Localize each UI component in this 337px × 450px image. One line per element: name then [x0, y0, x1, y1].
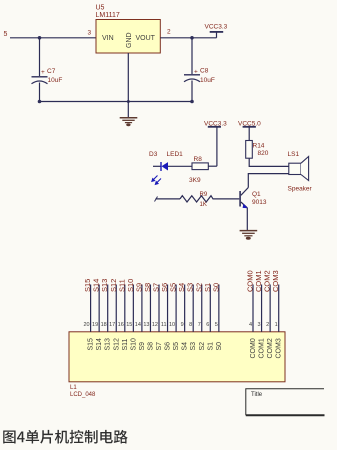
svg-text:L1: L1 — [70, 385, 77, 391]
wire: net S8 to pin 13 — [149, 285, 151, 332]
svg-text:7: 7 — [198, 322, 201, 328]
svg-text:S12: S12 — [113, 338, 120, 351]
svg-text:C7: C7 — [47, 68, 56, 75]
svg-text:Q1: Q1 — [252, 191, 261, 198]
svg-text:COM1: COM1 — [259, 338, 266, 358]
wire: R14 to speaker top — [249, 158, 289, 166]
regulator U5 LM1117 — [88, 5, 172, 54]
svg-text:S6: S6 — [165, 342, 172, 351]
wire: net COM3 to pin 1 — [278, 285, 280, 332]
svg-text:4: 4 — [249, 322, 252, 328]
svg-text:S0: S0 — [216, 342, 223, 351]
wire: R8 to VCC3.3 elbow — [208, 165, 217, 167]
svg-text:9: 9 — [181, 322, 184, 328]
svg-text:3: 3 — [88, 30, 92, 37]
resistor R9 1K (zigzag) — [155, 192, 240, 208]
svg-text:+: + — [194, 69, 198, 76]
wire: ground rail — [40, 101, 193, 103]
wire: net S11 to pin 16 — [124, 285, 126, 332]
svg-text:R9: R9 — [200, 192, 208, 198]
svg-text:3K9: 3K9 — [189, 177, 201, 184]
svg-text:2: 2 — [167, 29, 171, 36]
svg-text:9013: 9013 — [252, 199, 267, 206]
wire: net S15 to pin 20 — [90, 285, 92, 332]
resistor R8 3K9 — [189, 156, 208, 184]
wire: net S7 to pin 12 — [158, 285, 160, 332]
wire: net S2 to pin 7 — [201, 285, 203, 332]
svg-text:S2: S2 — [199, 342, 206, 351]
capacitor C7 10uF — [32, 38, 63, 102]
svg-text:8: 8 — [189, 322, 192, 328]
svg-text:COM0: COM0 — [250, 338, 257, 358]
wire: net COM2 to pin 2 — [269, 285, 271, 332]
wire: net S3 to pin 8 — [192, 285, 194, 332]
node: GND rail junction — [127, 100, 130, 103]
wire: emitter to ground — [246, 208, 248, 230]
svg-text:5: 5 — [215, 322, 218, 328]
wire: net S6 to pin 11 — [167, 285, 169, 332]
svg-text:S15: S15 — [88, 338, 95, 351]
ground: Q1 emitter earth — [240, 231, 258, 240]
svg-text:LS1: LS1 — [288, 151, 300, 158]
wire: VOUT to VCC3.3 — [160, 37, 216, 39]
wire: net COM1 to pin 3 — [261, 285, 263, 332]
wire: net S14 to pin 19 — [98, 285, 100, 332]
svg-text:C8: C8 — [200, 68, 209, 75]
power VCC3.3 (top) — [205, 24, 228, 38]
svg-text:17: 17 — [109, 322, 115, 328]
svg-text:18: 18 — [101, 322, 107, 328]
svg-text:2: 2 — [266, 322, 269, 328]
svg-text:COM3: COM3 — [271, 270, 280, 292]
svg-text:S14: S14 — [96, 338, 103, 351]
svg-text:20: 20 — [83, 322, 89, 328]
node: C8 bottom junction — [190, 100, 194, 104]
svg-text:VCC3.3: VCC3.3 — [205, 24, 228, 31]
svg-text:Title: Title — [251, 392, 263, 398]
svg-text:S13: S13 — [105, 338, 112, 351]
svg-text:13: 13 — [143, 322, 149, 328]
transistor Q1 9013 — [239, 188, 267, 209]
svg-text:LCD_048: LCD_048 — [70, 392, 96, 398]
wire: net COM0 to pin 4 — [252, 285, 254, 332]
wire: net S4 to pin 9 — [184, 285, 186, 332]
wire: net S10 to pin 15 — [132, 285, 134, 332]
ground: regulator earth — [120, 118, 138, 126]
svg-text:R14: R14 — [253, 143, 265, 150]
svg-text:S4: S4 — [182, 342, 189, 351]
node: junction input/C7 — [38, 36, 42, 40]
svg-text:10uF: 10uF — [200, 77, 215, 84]
svg-text:COM3: COM3 — [276, 338, 283, 358]
power VCC3.3 (mid) — [204, 120, 227, 166]
svg-text:VIN: VIN — [102, 35, 114, 42]
svg-text:COM2: COM2 — [267, 338, 274, 358]
wire: net S1 to pin 6 — [209, 285, 211, 332]
svg-text:S7: S7 — [156, 342, 163, 351]
wire: input net 5 to VIN — [4, 31, 97, 38]
svg-text:1: 1 — [275, 322, 278, 328]
svg-text:R8: R8 — [194, 156, 203, 163]
svg-text:S1: S1 — [207, 342, 214, 351]
svg-text:6: 6 — [206, 322, 209, 328]
svg-text:16: 16 — [118, 322, 124, 328]
svg-text:LED1: LED1 — [167, 151, 184, 158]
svg-text:19: 19 — [92, 322, 98, 328]
svg-text:15: 15 — [126, 322, 132, 328]
svg-text:Speaker: Speaker — [288, 186, 313, 193]
svg-text:1K: 1K — [200, 202, 207, 208]
LED D3 LED1 — [149, 151, 192, 184]
resistor R14 820 — [246, 141, 269, 159]
svg-text:S10: S10 — [130, 338, 137, 351]
svg-text:GND: GND — [126, 32, 133, 48]
svg-text:+: + — [41, 69, 45, 76]
wire: net S9 to pin 14 — [141, 285, 143, 332]
wire: net S5 to pin 10 — [175, 285, 177, 332]
power VCC5.0 — [238, 120, 261, 140]
wire: collector to speaker bottom — [248, 174, 288, 188]
caption 图4单片机控制电路 — [3, 430, 128, 444]
svg-text:11: 11 — [161, 322, 167, 328]
svg-text:S8: S8 — [147, 342, 154, 351]
LCD module L1 LCD_048 — [69, 332, 285, 398]
svg-text:5: 5 — [4, 31, 8, 38]
node: C7 bottom junction — [38, 100, 42, 104]
capacitor C8 10uF — [184, 38, 215, 102]
wire: regulator GND pin down — [127, 53, 129, 117]
svg-text:LM1117: LM1117 — [96, 12, 120, 19]
svg-text:10: 10 — [169, 322, 175, 328]
svg-text:S5: S5 — [173, 342, 180, 351]
svg-text:3: 3 — [258, 322, 261, 328]
title block — [246, 389, 325, 415]
wire: net S12 to pin 17 — [115, 285, 117, 332]
svg-text:12: 12 — [152, 322, 158, 328]
svg-text:820: 820 — [258, 150, 269, 157]
svg-text:14: 14 — [135, 322, 141, 328]
svg-text:VOUT: VOUT — [136, 35, 156, 42]
svg-text:U5: U5 — [96, 5, 105, 12]
svg-text:10uF: 10uF — [48, 77, 63, 84]
svg-text:D3: D3 — [149, 151, 158, 158]
speaker LS1 — [288, 151, 313, 193]
svg-text:S0: S0 — [211, 283, 220, 292]
svg-text:S11: S11 — [122, 338, 129, 350]
wire: net S13 to pin 18 — [107, 285, 109, 332]
svg-text:S3: S3 — [190, 342, 197, 351]
svg-text:S9: S9 — [139, 342, 146, 351]
wire: net S0 to pin 5 — [218, 285, 220, 332]
node: junction VOUT/C8 — [190, 36, 194, 40]
